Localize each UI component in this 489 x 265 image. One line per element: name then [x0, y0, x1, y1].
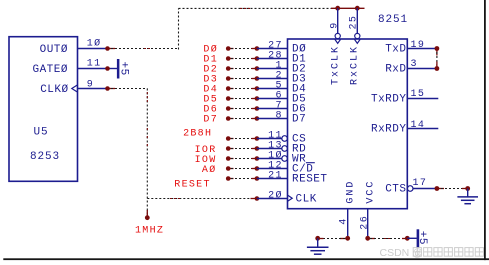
- CLK0 input arrow of U5: [72, 85, 78, 92]
- IC U5 (8253 timer) body: [9, 37, 78, 182]
- pin 13 RD of 8251: [257, 140, 288, 151]
- junction D7 source: [226, 116, 231, 121]
- svg-text:GATEØ: GATEØ: [32, 64, 68, 76]
- junction D7 pin: [255, 116, 260, 121]
- pin 12 C/D of 8251: [257, 160, 288, 171]
- wire net D4 (dashed): [226, 88, 257, 90]
- pin 15 TxRDY: [407, 89, 438, 100]
- svg-text:3: 3: [411, 59, 418, 70]
- wire net D1 (dashed): [226, 58, 257, 60]
- wire net WR (dashed): [226, 158, 257, 160]
- svg-text:15: 15: [411, 89, 426, 100]
- junction RESET pin: [255, 176, 260, 181]
- pin 11 CS of 8251: [257, 130, 288, 141]
- pin 10 OUT0 of U5: [78, 37, 108, 49]
- svg-text:VCC: VCC: [365, 180, 376, 204]
- wire net C/D (dashed): [226, 168, 257, 170]
- svg-text:RxD: RxD: [385, 63, 406, 75]
- svg-text:CLKØ: CLKØ: [40, 84, 68, 96]
- svg-text:D7: D7: [292, 113, 306, 125]
- wire net D0 (dashed): [226, 48, 257, 50]
- pin 10 WR of 8251: [257, 149, 288, 161]
- junction D4 source: [226, 86, 231, 91]
- ground symbol at CTS: [457, 189, 478, 204]
- pin 9 TxCLK (top): [329, 8, 340, 43]
- wire net D7 (dashed): [226, 118, 257, 120]
- svg-text:2Ø: 2Ø: [268, 189, 283, 201]
- junction RxD: [435, 66, 440, 71]
- wire CTS to ground (dashed): [439, 188, 468, 190]
- svg-text:14: 14: [411, 120, 426, 131]
- svg-text:1Ø: 1Ø: [87, 37, 102, 49]
- pin 27 D0 of 8251: [257, 40, 288, 51]
- pin 5 D4 of 8251: [257, 80, 288, 91]
- junction at left ground: [315, 236, 320, 241]
- wire TxD-RxD loopback (dashed): [436, 51, 438, 67]
- pin 7 D6 of 8251: [257, 100, 288, 111]
- IC 8251 USART body: [288, 14, 409, 209]
- junction D6 source: [226, 106, 231, 111]
- wire net D3 (dashed): [226, 78, 257, 80]
- pin 3 RxD: [407, 59, 437, 70]
- wire VCC pin to +5 (dashed): [369, 238, 407, 240]
- pin 6 D5 of 8251: [257, 90, 288, 101]
- ground symbol at GND: [307, 238, 329, 254]
- junction TxCLK top: [335, 6, 340, 11]
- svg-text:TxCLK: TxCLK: [330, 45, 341, 85]
- svg-text:RESET: RESET: [174, 179, 211, 190]
- junction D2 source: [226, 66, 231, 71]
- node 1MHZ: [135, 215, 164, 236]
- sheet border bottom: [3, 258, 489, 260]
- pin 26 VCC (bottom): [360, 209, 371, 239]
- junction RxCLK top: [355, 6, 360, 11]
- svg-text:17: 17: [413, 178, 428, 189]
- junction CLK0 pin: [105, 86, 110, 91]
- svg-text:1MHZ: 1MHZ: [135, 226, 164, 237]
- svg-text:+5: +5: [416, 231, 428, 245]
- +5 power symbol at VCC: [407, 229, 428, 248]
- svg-text:TxD: TxD: [385, 43, 406, 55]
- svg-text:TxRDY: TxRDY: [371, 93, 407, 105]
- watermark: [380, 247, 484, 259]
- junction D6 pin: [255, 106, 260, 111]
- svg-text:RxCLK: RxCLK: [350, 45, 361, 85]
- junction CTS: [435, 186, 440, 191]
- wire net D5 (dashed): [226, 98, 257, 100]
- wire net OUT0 to TxCLK/RxCLK (dashed): [106, 8, 365, 49]
- junction D4 pin: [255, 86, 260, 91]
- svg-text:25: 25: [349, 15, 360, 30]
- svg-text:CLK: CLK: [296, 193, 317, 205]
- junction D0 pin: [255, 46, 260, 51]
- svg-text:CSDN @: CSDN @: [380, 247, 423, 259]
- wire net D2 (dashed): [226, 68, 257, 70]
- svg-text:9: 9: [329, 21, 340, 28]
- svg-text:CTS: CTS: [385, 183, 406, 195]
- junction WR source: [226, 156, 231, 161]
- pin 19 TxD: [407, 40, 437, 51]
- junction C/D pin: [255, 166, 260, 171]
- junction D2 pin: [255, 66, 260, 71]
- pin 17 CTS with bubble: [407, 178, 436, 191]
- junction GND pin: [345, 236, 350, 241]
- pin 11 GATE0 of U5: [78, 59, 108, 70]
- wire net D6 (dashed): [226, 108, 257, 110]
- svg-text:8: 8: [275, 110, 282, 121]
- pin 9 CLK0 of U5: [78, 79, 108, 90]
- svg-text:AØ: AØ: [202, 164, 217, 176]
- wire net CLK0 / 1MHZ (dashed): [106, 89, 257, 216]
- junction VCC pin: [365, 236, 370, 241]
- pin 8 D7 of 8251: [257, 110, 288, 121]
- wire GND pin to ground (dashed): [318, 238, 346, 240]
- +5 power symbol at GATE0: [108, 59, 130, 79]
- junction OUT0 pin: [105, 46, 110, 51]
- junction on GATE0: [105, 66, 110, 71]
- junction D5 pin: [255, 96, 260, 101]
- junction TxD: [435, 46, 440, 51]
- junction at +5: [405, 236, 410, 241]
- junction CLK net at pin 20: [255, 196, 260, 201]
- sheet border right: [484, 0, 486, 260]
- junction C/D source: [226, 166, 231, 171]
- wire net CS (dashed): [226, 138, 257, 140]
- svg-text:8253: 8253: [30, 151, 60, 163]
- svg-text:4: 4: [338, 217, 349, 224]
- svg-text:RxRDY: RxRDY: [371, 123, 407, 135]
- junction WR pin: [255, 156, 260, 161]
- junction D3 source: [226, 76, 231, 81]
- junction D3 pin: [255, 76, 260, 81]
- svg-text:21: 21: [268, 170, 283, 181]
- svg-text:2B8H: 2B8H: [183, 128, 212, 139]
- junction D1 source: [226, 56, 231, 61]
- svg-text:+5: +5: [117, 62, 129, 76]
- svg-text:D7: D7: [203, 115, 218, 126]
- pin 20 CLK of 8251: [257, 189, 288, 201]
- junction CS source: [226, 136, 231, 141]
- junction D5 source: [226, 96, 231, 101]
- junction RESET source: [226, 176, 231, 181]
- svg-text:OUTØ: OUTØ: [40, 44, 68, 56]
- svg-text:RESET: RESET: [292, 173, 328, 185]
- junction D0 source: [226, 46, 231, 51]
- svg-text:11: 11: [87, 59, 102, 70]
- wire net RD (dashed): [226, 148, 257, 150]
- svg-text:26: 26: [360, 215, 371, 230]
- svg-text:8251: 8251: [378, 14, 408, 26]
- CLK input triangle of 8251: [288, 195, 293, 201]
- pin 28 D1 of 8251: [257, 50, 288, 61]
- pin 25 RxCLK (top): [349, 8, 361, 43]
- svg-text:GND: GND: [345, 180, 356, 204]
- pin 14 RxRDY: [407, 120, 438, 131]
- junction RD source: [226, 146, 231, 151]
- junction D1 pin: [255, 56, 260, 61]
- junction at CTS ground: [465, 186, 470, 191]
- pin 2 D3 of 8251: [257, 70, 288, 81]
- pin 1 D2 of 8251: [257, 60, 288, 71]
- svg-text:19: 19: [411, 40, 426, 51]
- pin 4 GND (bottom): [338, 209, 349, 239]
- pin 21 RESET of 8251: [257, 170, 288, 181]
- wire net RESET (dashed): [226, 178, 257, 180]
- svg-text:9: 9: [87, 79, 94, 90]
- junction RD pin: [255, 146, 260, 151]
- svg-text:U5: U5: [34, 126, 49, 138]
- junction CS pin: [255, 136, 260, 141]
